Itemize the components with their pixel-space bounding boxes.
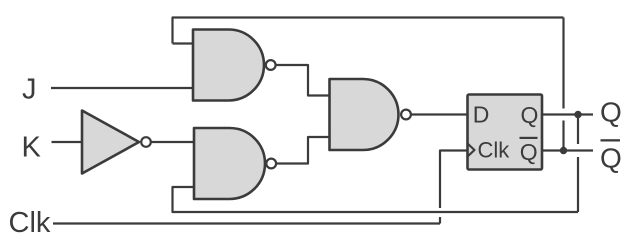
overline of pin Qbar <box>520 137 538 139</box>
bubble of inverter <box>141 137 151 147</box>
wire middle NAND output to D pin <box>411 113 468 115</box>
wire Clk input run <box>53 222 440 224</box>
wire inverter output to bottom NAND upper input <box>151 141 194 143</box>
wire Clk vertical riser lower segment (gap at crossing) <box>439 217 441 224</box>
NAND gate top (body) <box>193 30 264 101</box>
svg-text:Q: Q <box>600 143 622 174</box>
wire Q output <box>542 113 593 115</box>
wire J input <box>51 87 193 89</box>
wire top feedback right vertical lower segment to Qbar node <box>562 121 564 151</box>
wire top NAND output to middle NAND upper input <box>276 65 330 96</box>
wire Clk vertical riser upper segment to flip-flop clock pin <box>440 151 468 209</box>
wire top feedback from Qbar: left drop into top NAND upper input <box>173 18 564 44</box>
junction node on Qbar line <box>560 147 567 154</box>
wire K input <box>52 141 83 143</box>
svg-text:Q: Q <box>520 139 538 165</box>
wire bottom NAND output to middle NAND lower input <box>277 137 330 164</box>
D flip-flop U1 (body) <box>468 95 543 170</box>
NAND gate bottom (body) <box>194 128 265 199</box>
svg-text:Clk: Clk <box>9 207 51 236</box>
bubble of middle NAND <box>401 110 411 120</box>
svg-text:J: J <box>22 74 37 106</box>
overline of Qbar output label <box>601 139 621 141</box>
wire Qbar output <box>542 149 593 151</box>
wire Q feedback vertical lower segment <box>577 157 579 212</box>
wire Q feedback vertical upper segment (gap at Qbar crossing) <box>577 115 579 145</box>
svg-text:D: D <box>473 102 490 128</box>
clock wedge on flip-flop <box>468 144 475 157</box>
wire top NAND upper input stub <box>173 42 194 44</box>
wire bottom feedback run to bottom NAND lower input <box>173 187 579 212</box>
bubble of top NAND <box>266 60 276 70</box>
svg-text:Q: Q <box>521 102 539 128</box>
bubble of bottom NAND <box>266 159 276 169</box>
NAND gate middle (body) <box>330 79 399 150</box>
junction node on Q line <box>574 111 581 118</box>
inverter on K (triangle) <box>82 111 139 174</box>
wire top feedback right vertical upper segment (gap at Q crossing) <box>562 18 564 109</box>
svg-text:Clk: Clk <box>478 138 511 163</box>
svg-text:K: K <box>22 132 42 164</box>
svg-text:Q: Q <box>600 97 622 128</box>
